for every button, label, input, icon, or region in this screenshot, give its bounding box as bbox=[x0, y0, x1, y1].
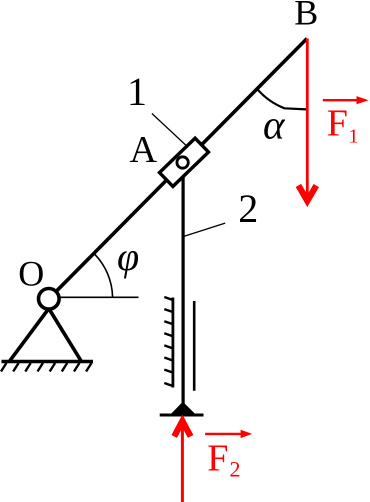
label F1 bbox=[327, 102, 359, 147]
leader line to label 1 bbox=[152, 114, 196, 155]
horizontal reference line at O bbox=[57, 296, 139, 298]
foot base bar bbox=[160, 414, 204, 417]
support base line bbox=[2, 360, 94, 363]
ground hatching under support bbox=[1, 363, 92, 372]
slider block 1 at A bbox=[159, 138, 208, 186]
svg-text:A: A bbox=[130, 129, 158, 171]
svg-text:B: B bbox=[294, 0, 318, 33]
angle phi arc bbox=[94, 253, 113, 297]
hinge circle O bbox=[39, 289, 60, 310]
svg-text:α: α bbox=[263, 102, 286, 148]
force F1 vertical arrow bbox=[298, 39, 316, 201]
svg-text:2: 2 bbox=[238, 186, 258, 231]
svg-text:O: O bbox=[18, 253, 44, 293]
angle alpha arc bbox=[257, 89, 307, 110]
support triangle legs bbox=[10, 309, 81, 361]
svg-text:F: F bbox=[207, 438, 228, 480]
svg-text:F: F bbox=[327, 102, 348, 144]
label F2 bbox=[207, 438, 240, 482]
rod OB bbox=[49, 39, 307, 299]
svg-text:1: 1 bbox=[127, 69, 147, 114]
force F2 vertical arrow bbox=[174, 421, 190, 502]
leader line to label 2 bbox=[183, 223, 225, 236]
pin circle at A bbox=[177, 157, 188, 168]
guide right wall bbox=[193, 301, 196, 391]
svg-text:φ: φ bbox=[117, 234, 139, 279]
svg-text:1: 1 bbox=[349, 125, 359, 147]
svg-text:2: 2 bbox=[230, 457, 241, 482]
foot triangle at bottom of rod 2 bbox=[171, 402, 195, 414]
force F1 direction arrow (horizontal) bbox=[323, 96, 369, 104]
force F2 direction arrow (horizontal) bbox=[205, 430, 252, 438]
guide left wall with hatching bbox=[164, 297, 173, 388]
rod 2 vertical link bbox=[182, 168, 185, 407]
